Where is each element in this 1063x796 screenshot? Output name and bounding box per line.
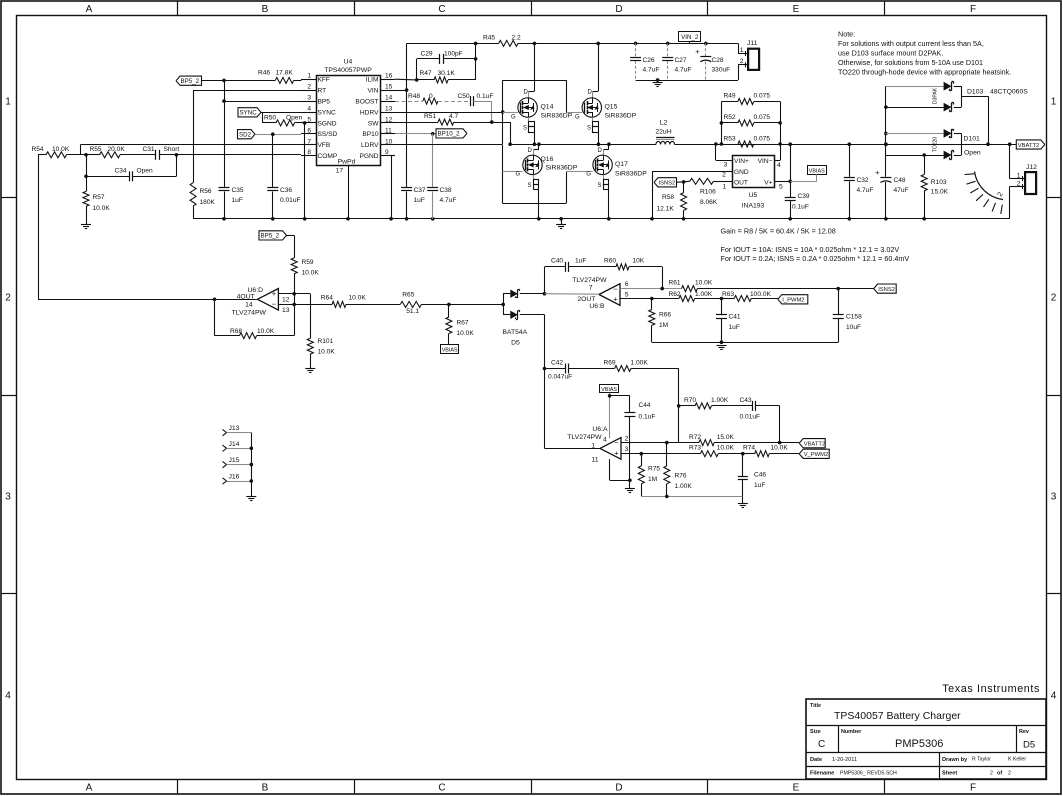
svg-text:10.0K: 10.0K — [771, 444, 789, 451]
switch node rail — [510, 144, 656, 146]
svg-text:E: E — [793, 783, 800, 794]
svg-text:+: + — [272, 289, 277, 298]
ground below J16 — [246, 496, 256, 498]
transistor Q17 SiR836DP — [607, 142, 611, 146]
wire C43 down to minus line — [779, 406, 781, 443]
wire COMP line to U4 pin 8 — [176, 154, 301, 156]
svg-text:of: of — [997, 771, 1002, 777]
svg-text:Rev: Rev — [1019, 729, 1029, 735]
svg-text:4.7uF: 4.7uF — [675, 67, 692, 74]
svg-text:3: 3 — [724, 162, 728, 169]
svg-text:+: + — [614, 449, 619, 458]
svg-text:BP10_2: BP10_2 — [438, 131, 461, 138]
wire VBIAS to op-amp supply pin — [609, 393, 611, 438]
frame column tick lines bottom — [177, 779, 179, 794]
svg-text:3: 3 — [1051, 492, 1057, 503]
wire LDRV line — [395, 144, 503, 146]
svg-text:C41: C41 — [729, 314, 741, 321]
svg-text:R62: R62 — [669, 291, 681, 298]
svg-text:1uF: 1uF — [414, 197, 425, 204]
svg-text:R46: R46 — [258, 70, 270, 77]
ground below C44 — [625, 488, 635, 490]
svg-text:1-20-2011: 1-20-2011 — [832, 757, 857, 763]
ground below R57 — [81, 224, 91, 226]
svg-text:14: 14 — [245, 301, 253, 308]
svg-text:4: 4 — [307, 106, 311, 113]
svg-text:SYNC: SYNC — [240, 110, 258, 117]
svg-text:0.075: 0.075 — [754, 136, 771, 143]
svg-text:2: 2 — [5, 293, 11, 304]
svg-text:BP5: BP5 — [318, 99, 331, 106]
svg-text:TO220 through-hode device with: TO220 through-hode device with appropria… — [838, 68, 1011, 77]
svg-text:SiR836DP: SiR836DP — [615, 171, 647, 178]
diode D103 top — [885, 86, 887, 155]
capacitor C42 feedback — [543, 367, 547, 371]
svg-text:3: 3 — [307, 95, 311, 102]
svg-text:COMP: COMP — [318, 153, 338, 160]
U4 left pin stubs and labels — [301, 79, 316, 81]
svg-text:D101: D101 — [964, 136, 980, 143]
wire J13-J16 common vertical — [251, 433, 253, 496]
svg-text:INA193: INA193 — [742, 203, 765, 210]
svg-text:1M: 1M — [659, 322, 668, 329]
svg-text:15.0K: 15.0K — [717, 434, 735, 441]
svg-text:C: C — [438, 4, 445, 15]
svg-text:Gain = R8 / 5K = 60.4K / 5K =: Gain = R8 / 5K = 60.4K / 5K = 12.08 — [721, 227, 836, 236]
svg-text:12.1K: 12.1K — [657, 206, 675, 213]
svg-text:PMP5306: PMP5306 — [895, 738, 943, 750]
svg-text:Drawn by: Drawn by — [942, 757, 968, 763]
op-amp U5 INA193 body — [733, 156, 775, 188]
svg-text:11: 11 — [385, 127, 392, 134]
svg-text:1.00K: 1.00K — [631, 360, 649, 367]
title block size/number/rev row — [806, 752, 1046, 754]
svg-text:1uF: 1uF — [754, 482, 765, 489]
svg-text:V+: V+ — [764, 179, 772, 186]
node C31 right junction — [175, 153, 179, 157]
svg-text:10.0K: 10.0K — [318, 349, 336, 356]
svg-text:BOOST: BOOST — [355, 99, 378, 106]
svg-text:D: D — [588, 90, 593, 96]
svg-text:0.1uF: 0.1uF — [477, 93, 494, 100]
svg-text:R49: R49 — [724, 93, 736, 100]
svg-text:G: G — [586, 172, 591, 178]
svg-text:R64: R64 — [321, 295, 333, 302]
svg-text:S: S — [598, 183, 602, 189]
svg-text:J13: J13 — [229, 425, 240, 432]
svg-text:U4: U4 — [344, 59, 353, 66]
svg-text:10.0K: 10.0K — [93, 205, 111, 212]
resistor R67 — [447, 303, 451, 307]
capacitor C46 — [742, 454, 744, 476]
svg-text:180K: 180K — [200, 199, 216, 206]
svg-text:D: D — [524, 90, 529, 96]
svg-text:4.7uF: 4.7uF — [643, 67, 660, 74]
svg-text:12: 12 — [385, 116, 393, 123]
svg-text:F: F — [970, 4, 976, 15]
svg-text:F: F — [970, 783, 976, 794]
svg-text:C32: C32 — [857, 177, 869, 184]
wire SGND vertical — [301, 122, 305, 124]
svg-text:1: 1 — [1051, 97, 1057, 108]
svg-text:OUT: OUT — [734, 179, 748, 186]
svg-text:A: A — [86, 4, 93, 15]
svg-text:J11: J11 — [747, 40, 758, 47]
svg-text:SiR836DP: SiR836DP — [605, 113, 637, 120]
svg-text:SYNC: SYNC — [318, 109, 337, 116]
svg-text:10.0K: 10.0K — [302, 270, 320, 277]
svg-text:C36: C36 — [280, 187, 292, 194]
svg-text:J14: J14 — [229, 441, 240, 448]
wire R69 down to minus input — [678, 369, 680, 443]
svg-text:G: G — [575, 115, 580, 121]
svg-text:B: B — [262, 4, 269, 15]
svg-text:17: 17 — [336, 168, 344, 175]
svg-text:8: 8 — [307, 149, 311, 156]
ground below R101 — [305, 368, 315, 370]
wire V+ vertical with C39 — [788, 142, 792, 146]
svg-text:L2: L2 — [660, 120, 668, 127]
net flag SD2 — [238, 130, 256, 139]
wire C36 vertical — [272, 134, 274, 187]
svg-text:0.1uF: 0.1uF — [792, 204, 809, 211]
svg-text:G: G — [511, 115, 516, 121]
svg-text:R103: R103 — [931, 179, 947, 186]
resistor R101 — [310, 294, 312, 339]
svg-text:10.0K: 10.0K — [349, 295, 367, 302]
svg-text:R63: R63 — [722, 291, 734, 298]
svg-text:R47: R47 — [420, 70, 432, 77]
net flag SYNC — [238, 108, 261, 117]
wire VIN top rail left part — [407, 43, 476, 45]
svg-text:1: 1 — [5, 97, 11, 108]
svg-text:4: 4 — [603, 437, 607, 444]
svg-text:2: 2 — [1008, 771, 1011, 777]
svg-text:R56: R56 — [200, 188, 212, 195]
svg-text:U5: U5 — [749, 192, 758, 199]
svg-text:B: B — [262, 783, 269, 794]
svg-text:Open: Open — [137, 168, 153, 175]
svg-text:R48: R48 — [408, 93, 420, 100]
wire C38 vertical — [432, 134, 434, 187]
svg-text:R61: R61 — [669, 280, 681, 287]
svg-text:TPS40057PWP: TPS40057PWP — [324, 67, 372, 74]
capacitor C40 feedback — [544, 267, 546, 294]
svg-text:14: 14 — [385, 95, 393, 102]
svg-text:Texas Instruments: Texas Instruments — [942, 683, 1040, 695]
svg-text:2: 2 — [1017, 180, 1021, 187]
svg-text:10: 10 — [385, 138, 393, 145]
wire BAT54A bottom cathode down — [544, 315, 546, 449]
D103 cathode join — [961, 86, 963, 107]
resistor R76 — [666, 443, 668, 466]
svg-text:100.0K: 100.0K — [750, 291, 772, 298]
svg-text:51.1: 51.1 — [406, 308, 419, 315]
svg-text:C: C — [438, 783, 445, 794]
svg-text:Q16: Q16 — [541, 156, 554, 163]
svg-text:J12: J12 — [1026, 164, 1037, 171]
capacitor C158 — [838, 289, 840, 315]
svg-text:9: 9 — [385, 149, 389, 156]
svg-text:10.0K: 10.0K — [695, 280, 713, 287]
svg-text:D103: D103 — [967, 89, 983, 96]
svg-text:−: − — [614, 438, 619, 447]
capacitor C27 — [666, 42, 670, 46]
svg-text:PwPd: PwPd — [338, 159, 356, 166]
svg-text:Filename: Filename — [810, 771, 834, 777]
net flag I_PWM2 — [778, 295, 808, 304]
capacitor C48 polarized — [884, 142, 888, 146]
wire VFB line to U4 pin 7 — [81, 144, 302, 146]
svg-text:1uF: 1uF — [232, 197, 243, 204]
wire RT vertical — [193, 90, 301, 92]
svg-text:R74: R74 — [743, 444, 755, 451]
svg-text:TLV274PW: TLV274PW — [567, 434, 602, 441]
svg-text:R54: R54 — [32, 146, 44, 153]
wire LDRV to Q16/Q17 gates — [502, 145, 504, 204]
svg-text:PMP5306_ REVD5.SCH: PMP5306_ REVD5.SCH — [840, 771, 897, 777]
resistor R75 — [641, 454, 643, 466]
wire BAT54A top cathode to U6:B output — [543, 292, 547, 296]
resistor R63 — [720, 297, 724, 301]
svg-text:22uH: 22uH — [655, 129, 671, 136]
net flag VBIAS row3 — [600, 385, 619, 393]
capacitor C29 loop — [416, 59, 418, 80]
capacitor C39 — [785, 197, 796, 199]
svg-text:1: 1 — [740, 47, 744, 54]
svg-text:0.1uF: 0.1uF — [639, 414, 656, 421]
svg-text:ILIM: ILIM — [366, 77, 379, 84]
svg-text:5: 5 — [625, 291, 629, 298]
svg-text:2: 2 — [1051, 293, 1057, 304]
U4 right pin stubs and labels — [380, 79, 395, 81]
svg-text:2: 2 — [625, 436, 629, 443]
svg-text:30.1K: 30.1K — [438, 70, 456, 77]
svg-text:Size: Size — [810, 729, 821, 735]
wire VIN pin to C37 vertical — [395, 90, 407, 92]
svg-text:U6:B: U6:B — [589, 303, 605, 310]
D101 cathode join — [961, 133, 963, 155]
svg-text:LDRV: LDRV — [361, 142, 379, 149]
net flag BP10_2 — [395, 133, 436, 135]
wire U6:D plus input — [279, 293, 311, 295]
svg-text:Q17: Q17 — [615, 161, 628, 168]
wire HDRV riser to Q15 gate route — [502, 80, 504, 144]
svg-text:SiR836DP: SiR836DP — [546, 165, 578, 172]
wire 4OUT horizontal to op-amp — [38, 299, 257, 301]
svg-text:G: G — [516, 172, 521, 178]
svg-text:For IOUT = 10A: ISNS = 10A * 0: For IOUT = 10A: ISNS = 10A * 0.025ohm * … — [721, 245, 900, 254]
diode D103 bottom — [884, 105, 888, 109]
svg-text:For solutions with output curr: For solutions with output current less t… — [838, 39, 984, 48]
svg-text:Short: Short — [164, 146, 180, 153]
svg-text:Sheet: Sheet — [942, 771, 957, 777]
svg-text:100pF: 100pF — [444, 51, 463, 58]
svg-text:3: 3 — [625, 446, 629, 453]
svg-text:0.075: 0.075 — [754, 114, 771, 121]
svg-text:PGND: PGND — [359, 153, 378, 160]
svg-text:R59: R59 — [302, 259, 314, 266]
wire Q15 gate — [566, 112, 582, 114]
svg-text:17.8K: 17.8K — [276, 70, 294, 77]
wire U6:D minus input line — [292, 303, 296, 307]
svg-text:4OUT: 4OUT — [237, 293, 255, 300]
svg-text:0.01uF: 0.01uF — [740, 414, 761, 421]
svg-text:Date: Date — [810, 757, 822, 763]
svg-text:RT: RT — [318, 88, 327, 95]
title block outline — [806, 699, 1046, 779]
net flag VBIAS row2 — [441, 345, 459, 354]
svg-text:R66: R66 — [659, 312, 671, 319]
svg-text:R67: R67 — [457, 320, 469, 327]
svg-text:4.7uF: 4.7uF — [857, 187, 874, 194]
svg-text:TPS40057 Battery Charger: TPS40057 Battery Charger — [834, 710, 961, 722]
svg-text:GND: GND — [734, 169, 749, 176]
svg-text:+: + — [613, 295, 618, 304]
svg-text:C37: C37 — [414, 187, 426, 194]
svg-text:VIN_2: VIN_2 — [681, 34, 699, 41]
svg-text:D5: D5 — [511, 340, 520, 347]
svg-text:C39: C39 — [798, 193, 810, 200]
svg-text:VBIAS: VBIAS — [442, 347, 458, 353]
svg-text:Open: Open — [286, 115, 302, 122]
svg-text:10.0K: 10.0K — [457, 330, 475, 337]
svg-text:R50: R50 — [264, 115, 276, 122]
svg-text:2: 2 — [307, 84, 311, 91]
svg-text:R51: R51 — [424, 113, 436, 120]
svg-text:J16: J16 — [229, 474, 240, 481]
wire C37 vertical — [406, 43, 408, 187]
svg-text:1: 1 — [723, 183, 727, 190]
svg-text:+: + — [695, 47, 700, 56]
svg-text:R69: R69 — [604, 360, 616, 367]
net flag VBIAS row1 — [808, 166, 827, 175]
svg-text:Number: Number — [841, 729, 862, 735]
svg-text:2: 2 — [990, 771, 993, 777]
svg-text:1.00K: 1.00K — [695, 291, 713, 298]
svg-text:8.06K: 8.06K — [700, 199, 718, 206]
svg-text:R60: R60 — [604, 258, 616, 265]
wire C50 to SW node — [491, 101, 493, 122]
svg-text:R73: R73 — [689, 444, 701, 451]
svg-text:47uF: 47uF — [894, 187, 909, 194]
svg-text:10uF: 10uF — [846, 324, 861, 331]
wire BP5 line — [224, 101, 301, 103]
wire U6:A output — [545, 448, 601, 450]
svg-text:4.7: 4.7 — [449, 113, 458, 120]
net flag ISNS2 row1 — [654, 178, 677, 187]
svg-text:7: 7 — [307, 138, 311, 145]
svg-text:TLV274PW: TLV274PW — [572, 277, 607, 284]
wire U5 GND down to rail — [652, 171, 726, 173]
svg-text:SD2: SD2 — [239, 132, 252, 139]
svg-text:C29: C29 — [421, 51, 433, 58]
svg-text:BP5_2: BP5_2 — [261, 233, 280, 240]
capacitor C32 — [848, 142, 852, 146]
net flag V_PWM2 — [799, 449, 829, 458]
svg-text:C158: C158 — [846, 314, 862, 321]
svg-text:11: 11 — [591, 456, 598, 463]
svg-text:K Keller: K Keller — [1008, 757, 1026, 763]
wire ILIM line — [395, 78, 417, 81]
svg-text:R57: R57 — [93, 194, 105, 201]
transistor Q14 SiR836DP — [534, 43, 536, 91]
svg-text:VIN+: VIN+ — [734, 158, 749, 165]
diode D101 top — [884, 132, 888, 136]
svg-text:3: 3 — [5, 492, 11, 503]
svg-text:4.7uF: 4.7uF — [440, 197, 457, 204]
svg-text:C35: C35 — [232, 187, 244, 194]
svg-text:TO220: TO220 — [933, 137, 939, 152]
svg-text:0.047uF: 0.047uF — [548, 374, 572, 381]
ground rail under power stage — [497, 218, 1009, 220]
svg-text:U6:A: U6:A — [592, 426, 608, 433]
svg-text:15: 15 — [385, 84, 393, 91]
svg-text:+: + — [875, 168, 880, 177]
wire 4OUT feedback vertical — [38, 155, 40, 299]
ground rail under U6:A — [641, 496, 743, 498]
svg-text:VFB: VFB — [318, 142, 331, 149]
op-amp U6:B TLV274PW — [599, 284, 620, 306]
op-amp U6:A TLV274PW — [600, 438, 621, 460]
svg-text:D: D — [615, 783, 622, 794]
net flag VBATT2 row1 — [1008, 142, 1012, 146]
svg-text:use D103 surface mount D2PAK.: use D103 surface mount D2PAK. — [838, 49, 943, 58]
svg-text:ISNS2: ISNS2 — [659, 181, 676, 187]
svg-text:13: 13 — [385, 106, 393, 113]
net flag ISNS2 row2 — [836, 287, 840, 291]
svg-text:C27: C27 — [675, 57, 687, 64]
svg-text:5: 5 — [779, 183, 783, 190]
svg-text:1M: 1M — [648, 476, 657, 483]
op-amp U6:D TLV274PW — [257, 289, 278, 311]
svg-text:BP5_2: BP5_2 — [181, 78, 200, 85]
wire VIN rail to input caps — [534, 43, 738, 45]
svg-text:V_PWM2: V_PWM2 — [804, 452, 828, 458]
wire U6:B minus line — [620, 288, 682, 290]
diode D101 bottom — [886, 155, 944, 157]
U5 pin stubs — [716, 160, 732, 162]
svg-text:7: 7 — [589, 285, 593, 292]
svg-text:C26: C26 — [643, 57, 655, 64]
wire HDRV line — [395, 112, 503, 114]
battery rail from L2 — [675, 144, 1010, 146]
capacitor C41 — [721, 299, 723, 315]
svg-text:D5: D5 — [1023, 740, 1035, 751]
net flag BP5_2 row2 — [259, 231, 287, 240]
svg-text:R106: R106 — [700, 189, 716, 196]
capacitor C34 Open branch — [86, 155, 88, 177]
svg-text:VBIAS: VBIAS — [809, 168, 825, 174]
wire Q14 gate — [503, 112, 518, 114]
svg-text:4: 4 — [777, 162, 781, 169]
svg-text:C40: C40 — [551, 258, 563, 265]
svg-text:R Taylor: R Taylor — [972, 757, 991, 763]
wire SYNC to U4 pin 4 — [261, 112, 301, 114]
svg-text:C48: C48 — [894, 177, 906, 184]
svg-text:C46: C46 — [754, 472, 766, 479]
diode D5 BAT54A — [501, 303, 505, 307]
svg-text:R75: R75 — [648, 466, 660, 473]
svg-text:1uF: 1uF — [575, 258, 586, 265]
svg-text:R101: R101 — [318, 338, 334, 345]
svg-text:10K: 10K — [633, 258, 645, 265]
wire VFB branch up — [80, 145, 82, 155]
transistor Q15 SiR836DP — [598, 43, 600, 91]
resistor R74 — [741, 452, 745, 456]
svg-text:0.01uF: 0.01uF — [280, 197, 301, 204]
svg-text:15.0K: 15.0K — [931, 189, 949, 196]
